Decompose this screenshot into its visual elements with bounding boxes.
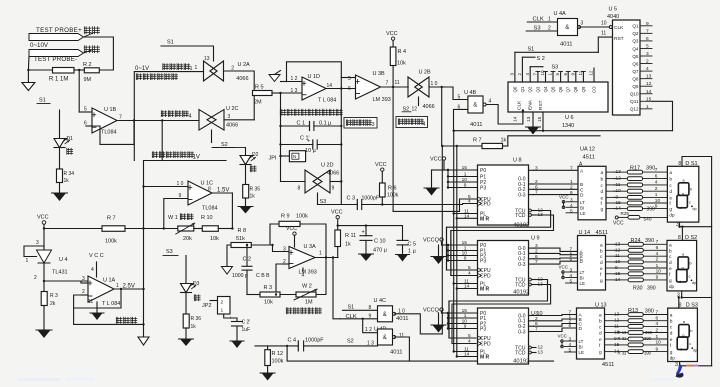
pin 6 wire U1B: [86, 125, 92, 127]
svg-text:VCC: VCC: [37, 215, 49, 221]
svg-text:13: 13: [204, 56, 210, 62]
svg-text:RST: RST: [614, 36, 624, 42]
svg-text:4066: 4066: [423, 104, 435, 110]
svg-text:VCC: VCC: [286, 226, 297, 232]
svg-text:2: 2: [656, 257, 659, 263]
resistor R3 10k: [260, 292, 280, 297]
svg-text:d: d: [669, 260, 672, 266]
R13 resistor row 4: [615, 332, 629, 334]
svg-text:390: 390: [645, 330, 653, 335]
DS3 digit glyph: [679, 325, 690, 338]
ground flag U9 area: [438, 245, 440, 257]
svg-text:ENA: ENA: [528, 99, 534, 110]
wire probe+ tip to R2: [84, 37, 114, 70]
svg-text:U 9: U 9: [531, 236, 540, 242]
svg-text:Q12: Q12: [630, 107, 639, 112]
svg-text:5: 5: [646, 43, 649, 49]
svg-text:Q6: Q6: [558, 86, 563, 92]
svg-text:C B B: C B B: [256, 273, 270, 279]
pin 6 wire U4B: [454, 109, 468, 130]
analog switch U2D 4066: [281, 181, 306, 183]
svg-text:4066: 4066: [226, 123, 238, 129]
svg-text:b: b: [600, 248, 603, 254]
label 黑笔 (black pen): [84, 46, 91, 53]
svg-text:1k: 1k: [191, 324, 197, 330]
svg-text:1 0: 1 0: [431, 81, 438, 87]
analog switch U2C 4066: [199, 110, 216, 131]
svg-text:Q0: Q0: [512, 86, 517, 92]
svg-text:4: 4: [302, 273, 305, 279]
svg-text:5: 5: [348, 76, 351, 82]
svg-text:+: +: [362, 230, 365, 236]
svg-text:e: e: [669, 196, 672, 201]
svg-text:Q4: Q4: [632, 46, 639, 51]
svg-text:TL084: TL084: [202, 206, 218, 212]
svg-text:R 11: R 11: [345, 233, 356, 239]
R24 resistor row 7: [615, 279, 629, 281]
svg-text:100k: 100k: [296, 214, 308, 220]
LED D2 red: [240, 156, 251, 165]
svg-text:a: a: [601, 171, 604, 176]
svg-text:4511: 4511: [602, 362, 614, 368]
svg-text:2: 2: [221, 300, 224, 306]
svg-text:10k: 10k: [397, 61, 406, 67]
svg-text:R30: R30: [633, 286, 643, 292]
pin 8 output U1C 1.5V: [212, 192, 232, 194]
svg-text:Q4: Q4: [543, 86, 548, 92]
svg-text:d: d: [599, 331, 602, 337]
svg-text:100k: 100k: [105, 239, 117, 245]
op-amp U1D TL084: [302, 77, 326, 100]
svg-text:d: d: [680, 347, 682, 352]
svg-text:3: 3: [570, 268, 573, 274]
svg-text:14: 14: [327, 83, 333, 89]
svg-text:D1: D1: [67, 136, 74, 142]
svg-text:R25: R25: [621, 211, 630, 216]
cascade U8 TCD to U9 CPD: [451, 215, 554, 276]
svg-text:390: 390: [645, 308, 654, 314]
resistor R2 9M: [84, 68, 99, 73]
power rail wire: [338, 225, 403, 227]
svg-text:b: b: [599, 319, 602, 325]
svg-text:2.5V: 2.5V: [123, 284, 135, 290]
ground flag U10 area: [438, 313, 440, 325]
svg-text:4: 4: [656, 321, 659, 327]
svg-text:CPD: CPD: [480, 342, 491, 348]
svg-text:M R: M R: [480, 216, 490, 222]
svg-text:4: 4: [655, 180, 658, 186]
DS3 pin3 to rail: [680, 362, 712, 366]
test point 4 box 测试点4: [396, 117, 428, 128]
svg-text:4: 4: [656, 251, 659, 257]
svg-text:S3: S3: [166, 249, 173, 255]
wire input node: [28, 69, 52, 71]
op-amp U1A TL084: [88, 276, 114, 302]
pin 14 output U1D: [326, 88, 356, 90]
svg-text:6: 6: [563, 73, 568, 76]
svg-text:c: c: [689, 199, 691, 204]
svg-text:4: 4: [423, 122, 426, 128]
resistor R12 100k: [267, 346, 269, 350]
svg-text:14: 14: [646, 89, 652, 95]
label 红笔 (red pen): [84, 27, 91, 34]
R13 resistor row 5: [615, 338, 629, 340]
R24 resistor row 3: [615, 255, 629, 257]
svg-text:P3: P3: [480, 259, 486, 265]
svg-text:g: g: [682, 191, 684, 196]
svg-text:2: 2: [656, 327, 659, 333]
svg-text:9: 9: [646, 21, 649, 27]
svg-text:P0: P0: [480, 168, 486, 174]
svg-text:11: 11: [601, 31, 606, 37]
counter U10 40192: [478, 308, 529, 364]
svg-text:9: 9: [332, 186, 335, 192]
svg-text:dp: dp: [670, 356, 676, 361]
svg-text:TL084: TL084: [101, 130, 117, 136]
svg-text:4: 4: [525, 73, 530, 76]
U4B output to U6 CLK: [486, 105, 523, 125]
svg-text:10: 10: [655, 198, 661, 204]
DS3 pin8 wire: [678, 298, 680, 309]
svg-text:4: 4: [468, 199, 471, 205]
svg-text:D S3: D S3: [686, 303, 698, 309]
svg-text:2: 2: [646, 59, 649, 65]
svg-text:1: 1: [656, 263, 659, 269]
svg-text:15: 15: [646, 96, 652, 102]
svg-text:S1: S1: [528, 47, 535, 53]
svg-text:R 6: R 6: [388, 186, 397, 192]
gate line A (Q11 net): [454, 130, 673, 132]
svg-text:U 4: U 4: [59, 257, 68, 263]
svg-text:12: 12: [412, 107, 418, 113]
R17 resistor row 5: [614, 196, 628, 198]
svg-text:VCC: VCC: [331, 210, 343, 216]
svg-text:dp: dp: [669, 284, 675, 289]
svg-text:3: 3: [581, 21, 584, 27]
svg-text:1: 1: [464, 172, 467, 178]
ground flag U1D+: [281, 81, 287, 83]
R13 resistor row 1: [615, 314, 629, 316]
svg-text:+: +: [307, 139, 310, 145]
svg-text:5: 5: [458, 95, 461, 101]
svg-text:P3: P3: [480, 186, 486, 192]
svg-text:dp: dp: [669, 213, 675, 218]
svg-text:1: 1: [195, 65, 198, 71]
svg-text:4: 4: [489, 99, 492, 105]
R17 resistor row 1: [614, 171, 628, 173]
wire R34 to ground: [59, 183, 61, 194]
svg-text:d: d: [670, 331, 673, 337]
svg-text:1: 1: [116, 283, 119, 289]
svg-text:3: 3: [372, 122, 375, 128]
svg-text:g: g: [601, 208, 604, 213]
DS2 pin3 to rail: [682, 291, 712, 298]
svg-text:d: d: [600, 260, 603, 266]
resistor R5 2M: [253, 91, 273, 96]
svg-text:1: 1: [548, 73, 553, 76]
svg-text:R 32: R 32: [618, 351, 628, 356]
svg-text:4511: 4511: [583, 155, 595, 161]
svg-text:9: 9: [179, 193, 182, 199]
DS1 pin3 to rail: [680, 222, 712, 227]
potentiometer W2 1M: [280, 294, 296, 296]
resistor R11 1k: [335, 230, 341, 247]
U8 to UA12 bus wires: [534, 169, 579, 171]
R17 resistor row 4: [614, 190, 628, 192]
7-segment display DS2: [667, 240, 697, 291]
resistor R6 100k: [380, 183, 386, 197]
svg-text:b: b: [669, 248, 672, 254]
svg-text:b: b: [670, 319, 673, 325]
ground R35: [245, 198, 247, 207]
resistor R8 51k: [231, 243, 251, 248]
svg-text:B: B: [580, 182, 583, 188]
svg-text:U 4C: U 4C: [374, 298, 387, 304]
svg-text:2: 2: [655, 186, 658, 192]
svg-text:15: 15: [537, 116, 543, 122]
svg-text:T L 084: T L 084: [318, 98, 336, 104]
label 金属化涤纶薄膜电容: [280, 109, 286, 115]
pin 10 wire U1C: [144, 186, 189, 188]
svg-text:e: e: [600, 267, 603, 272]
svg-text:4: 4: [570, 203, 573, 209]
wire output to CLK: [333, 258, 340, 319]
svg-text:470 µ: 470 µ: [373, 248, 388, 254]
svg-text:TCD: TCD: [515, 351, 526, 357]
svg-text:14: 14: [513, 116, 519, 122]
svg-text:9: 9: [656, 275, 659, 281]
svg-text:40192: 40192: [513, 290, 529, 296]
U1A feedback loop: [74, 289, 121, 308]
svg-text:S1: S1: [167, 40, 174, 46]
LED D1 green: [54, 139, 65, 148]
svg-text:R 36: R 36: [191, 316, 202, 322]
svg-text:P3: P3: [480, 327, 486, 333]
7-segment display DS1: [667, 166, 698, 222]
svg-text:390: 390: [647, 286, 656, 292]
svg-text:20k: 20k: [183, 236, 192, 242]
svg-text:R 12: R 12: [272, 351, 284, 357]
svg-text:&: &: [383, 335, 387, 341]
pin 9 wire U1C: [164, 199, 188, 229]
svg-text:d: d: [679, 279, 681, 284]
svg-text:9: 9: [655, 203, 658, 209]
svg-text:R 2: R 2: [83, 62, 92, 68]
svg-text:Q3: Q3: [535, 86, 540, 92]
resistor R3 2k: [41, 292, 47, 306]
svg-text:Q7: Q7: [566, 86, 571, 92]
svg-text:Q6: Q6: [632, 61, 639, 66]
svg-text:9: 9: [464, 324, 467, 330]
svg-text:3: 3: [646, 51, 649, 57]
svg-text:R 16: R 16: [618, 330, 628, 335]
svg-text:C 3: C 3: [347, 196, 356, 202]
svg-text:C 2': C 2': [242, 320, 251, 326]
R24 resistor row 1: [615, 243, 629, 245]
svg-text:S1: S1: [348, 305, 355, 311]
svg-text:Q1: Q1: [632, 24, 639, 29]
capacitor C2' 1uF: [224, 314, 237, 322]
svg-text:7: 7: [646, 28, 649, 34]
wire W1 to R10: [194, 228, 203, 230]
wire D1 to R34: [59, 148, 61, 170]
svg-text:10 µ: 10 µ: [305, 148, 317, 154]
svg-text:14: 14: [464, 284, 470, 290]
LED D3 yellow: [181, 284, 192, 293]
comparator U3A LM393: [289, 247, 315, 269]
svg-text:d: d: [669, 189, 672, 195]
svg-text:V C C: V C C: [89, 253, 104, 259]
svg-text:U 2B: U 2B: [419, 70, 432, 76]
svg-text:1: 1: [464, 313, 467, 319]
svg-text:LT: LT: [580, 200, 585, 205]
wire to U1B pin5: [78, 70, 80, 112]
svg-text:100k: 100k: [272, 359, 284, 365]
svg-text:R 7: R 7: [107, 216, 116, 222]
svg-text:3: 3: [675, 362, 678, 368]
wire into U8 CPD: [463, 204, 478, 205]
R3(10k)/W2 feedback row: [247, 294, 260, 296]
svg-text:Q10: Q10: [630, 92, 639, 97]
wire D3 to R36: [185, 293, 187, 315]
svg-text:&: &: [383, 312, 387, 318]
svg-text:a: a: [669, 171, 672, 176]
vertical bus wires: [441, 146, 443, 334]
U2B output to U4B: [429, 86, 453, 88]
svg-text:U 13: U 13: [595, 303, 607, 309]
svg-text:S1: S1: [39, 98, 46, 104]
svg-text:W 2: W 2: [302, 284, 312, 290]
svg-text:4: 4: [569, 342, 572, 348]
capacitor C5 1u: [402, 226, 404, 241]
R17 resistor row 6: [614, 202, 628, 204]
svg-text:390: 390: [645, 238, 654, 244]
wire probe- left to ground node: [27, 57, 30, 71]
svg-text:10k: 10k: [264, 300, 273, 306]
svg-text:9: 9: [656, 346, 659, 352]
svg-text:U 2C: U 2C: [226, 106, 239, 112]
svg-text:N: N: [293, 154, 296, 159]
svg-text:7: 7: [656, 309, 659, 315]
long wire C4 node to counters: [287, 346, 553, 361]
svg-text:1.5V: 1.5V: [217, 188, 229, 194]
svg-text:U 8: U 8: [513, 158, 522, 164]
svg-text:1340: 1340: [562, 123, 574, 129]
R13 resistor row 3: [615, 325, 629, 327]
svg-text:3: 3: [510, 73, 515, 76]
svg-text:LE: LE: [580, 211, 586, 216]
wire R8 right to U3A pin3: [251, 245, 289, 252]
svg-text:1 µ: 1 µ: [408, 249, 417, 255]
svg-text:3: 3: [283, 247, 286, 253]
svg-text:5: 5: [569, 348, 572, 354]
svg-text:9: 9: [464, 183, 467, 189]
svg-text:0-3: 0-3: [518, 262, 525, 268]
svg-text:13: 13: [526, 116, 532, 122]
R24 resistor row 5: [615, 267, 629, 269]
U9 to U14 bus wires: [534, 248, 578, 251]
svg-text:1 2: 1 2: [291, 76, 298, 82]
svg-text:3: 3: [228, 114, 231, 120]
svg-text:LT: LT: [579, 339, 584, 344]
svg-text:a: a: [599, 314, 602, 319]
svg-text:15: 15: [462, 240, 468, 246]
svg-text:4: 4: [189, 114, 192, 120]
svg-text:-1V: -1V: [191, 155, 200, 161]
timing wire C3 row: [318, 204, 358, 206]
svg-text:3: 3: [36, 240, 39, 246]
integrator right vertical: [340, 78, 342, 205]
output 2.5V: [114, 288, 144, 290]
svg-text:8: 8: [678, 161, 681, 167]
wire U4D out: [395, 337, 410, 361]
R13 resistor row 7: [615, 351, 629, 353]
svg-text:390: 390: [646, 166, 655, 172]
svg-text:Q2: Q2: [632, 31, 639, 36]
ground R12: [267, 366, 269, 374]
select line S3: [530, 66, 543, 68]
wire R7 to W1: [125, 228, 178, 230]
svg-text:9M: 9M: [84, 77, 92, 83]
svg-text:CLK: CLK: [614, 25, 624, 31]
svg-text:LM 393: LM 393: [373, 97, 391, 103]
svg-text:1000pF: 1000pF: [362, 196, 380, 202]
svg-text:dp: dp: [693, 349, 697, 353]
svg-text:6: 6: [348, 86, 351, 92]
svg-text:c: c: [689, 273, 691, 278]
svg-text:11: 11: [395, 80, 400, 86]
cascade U9 TCU to U10 CPU: [449, 280, 548, 339]
svg-text:4011: 4011: [560, 42, 572, 48]
svg-text:U 1A: U 1A: [103, 278, 116, 284]
wire S2 to D2: [234, 147, 246, 149]
svg-text:R 3: R 3: [264, 285, 273, 291]
op-amp U1C TL084: [188, 181, 212, 205]
svg-text:4066: 4066: [327, 171, 339, 177]
U10 to U13 bus wires: [534, 315, 577, 316]
svg-text:15: 15: [462, 165, 468, 171]
svg-text:VCC: VCC: [386, 31, 398, 37]
svg-text:TCD: TCD: [515, 283, 526, 289]
svg-text:6: 6: [656, 316, 659, 322]
svg-text:5: 5: [555, 73, 560, 76]
svg-text:9: 9: [570, 73, 575, 76]
svg-text:390: 390: [644, 336, 652, 341]
svg-text:Q3: Q3: [632, 39, 639, 44]
S3 control stub U2D: [317, 193, 319, 205]
svg-text:CO: CO: [592, 86, 597, 93]
counter U9 40192: [478, 241, 529, 296]
U3A output node: [315, 257, 338, 259]
R24 resistor row 6: [615, 273, 629, 275]
svg-text:g: g: [682, 265, 684, 270]
svg-text:LE: LE: [580, 281, 586, 286]
label 相对于模拟地: [136, 74, 142, 80]
svg-text:RST: RST: [538, 100, 544, 110]
svg-text:CLK: CLK: [517, 100, 523, 110]
label 黄 (yellow): [194, 295, 200, 301]
svg-text:+: +: [229, 316, 232, 322]
svg-text:1M: 1M: [305, 300, 313, 306]
svg-text:D: D: [580, 193, 584, 199]
U6 ENA to ground: [532, 112, 534, 127]
7-segment display DS3: [668, 308, 698, 361]
svg-text:g: g: [599, 351, 602, 356]
svg-text:R 31: R 31: [618, 336, 628, 341]
svg-text:1 3: 1 3: [367, 341, 374, 347]
svg-text:3: 3: [569, 337, 572, 343]
svg-text:U 2D: U 2D: [321, 163, 334, 169]
